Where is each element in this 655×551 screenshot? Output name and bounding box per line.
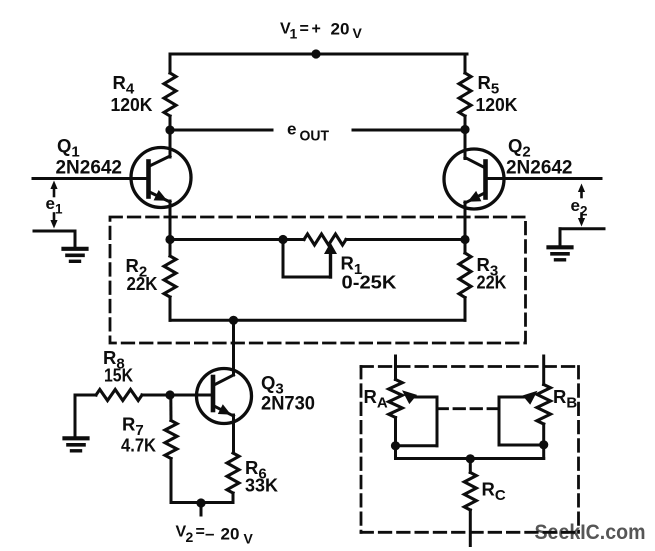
node bottom rail junction <box>229 316 238 325</box>
resistor RC <box>464 459 476 546</box>
node V2 junction <box>196 498 205 507</box>
node RC junction <box>466 454 475 463</box>
node RB wiper junction <box>539 440 548 449</box>
transistor Q2 <box>444 149 504 209</box>
node Q1 emitter junction <box>165 235 174 244</box>
ground R8 <box>65 438 88 451</box>
wire Q2 base lead <box>486 177 602 180</box>
resistor R7 <box>165 395 177 503</box>
dashed inset box bottom edge <box>361 531 579 534</box>
wire V2 bottom rail <box>171 501 233 504</box>
wire e2 ground step <box>560 229 604 247</box>
node Q2 emitter junction <box>460 235 469 244</box>
potentiometer RB <box>523 356 551 459</box>
wire emitter rail left <box>170 238 304 241</box>
svg-text:2N730: 2N730 <box>261 394 315 415</box>
resistor R6 <box>227 453 239 503</box>
wire emitter rail right <box>346 238 465 241</box>
wire Q1 base lead <box>33 177 149 180</box>
wire RA wiper loop <box>396 397 438 446</box>
dashed enclosure box (R1 R2 R3 network) <box>110 217 526 343</box>
resistor R5 <box>459 54 471 131</box>
svg-text:e2: e2 <box>571 196 588 219</box>
wire bottom rail of box <box>170 319 465 322</box>
wire to Q3 collector <box>232 320 235 375</box>
transistor Q1 <box>131 148 191 208</box>
node R5 bottom junction <box>460 125 469 134</box>
svg-text:0-25K: 0-25K <box>342 272 398 293</box>
label e OUT <box>287 120 329 145</box>
wire Q2 collector <box>464 130 467 159</box>
resistor R4 <box>164 54 176 131</box>
resistor R3 <box>459 240 471 321</box>
wire Q1 emitter <box>169 201 172 240</box>
svg-text:RA: RA <box>364 386 388 412</box>
resistor R8 <box>75 390 213 401</box>
wire eOUT right segment <box>353 129 465 132</box>
wire Q2 emitter <box>464 202 467 240</box>
svg-text:OUT: OUT <box>300 128 330 145</box>
svg-text:RB: RB <box>553 386 577 412</box>
svg-text:22K: 22K <box>127 273 159 294</box>
node Q3 base junction <box>165 390 174 399</box>
wire Q3 emitter <box>232 415 235 453</box>
svg-text:2N2642: 2N2642 <box>56 158 123 179</box>
annotation e2 arrows and label <box>571 184 588 227</box>
svg-text:V2=–20V: V2=–20V <box>176 524 254 547</box>
wire R1 bypass loop <box>283 240 331 278</box>
wire V2 stub <box>200 503 203 515</box>
wire top +20V rail <box>170 53 467 56</box>
node V1 junction <box>311 49 320 58</box>
node RA wiper junction <box>391 441 400 450</box>
dashed gang coupling line <box>437 407 499 410</box>
resistor R2 <box>164 240 176 321</box>
wire eOUT left segment <box>170 129 272 132</box>
ground e2 <box>549 247 572 259</box>
svg-text:15K: 15K <box>104 365 134 386</box>
wire inset bottom rail <box>396 457 544 460</box>
svg-text:RC: RC <box>482 479 506 505</box>
node eOUT left junction <box>165 125 174 134</box>
wire RB wiper loop <box>499 397 544 445</box>
svg-text:120K: 120K <box>476 94 519 115</box>
ground e1 <box>64 249 87 261</box>
svg-text:120K: 120K <box>111 94 154 115</box>
wire R8 ground drop <box>74 395 77 438</box>
transistor Q3 <box>197 369 252 424</box>
svg-text:V1=+20V: V1=+20V <box>280 20 363 42</box>
annotation e1 arrows and label <box>46 181 63 229</box>
node R1 bypass junction <box>278 235 287 244</box>
svg-text:22K: 22K <box>477 272 508 293</box>
wire Q1 collector <box>169 130 172 157</box>
svg-text:33K: 33K <box>245 475 279 496</box>
svg-text:4.7K: 4.7K <box>121 435 157 456</box>
potentiometer R1 <box>304 234 346 277</box>
svg-text:2N2642: 2N2642 <box>506 158 573 179</box>
wire e1 ground step <box>34 231 75 248</box>
dashed inset box (RA RB RC network) <box>361 367 579 533</box>
svg-text:e: e <box>287 120 296 139</box>
potentiometer RA <box>389 356 417 459</box>
